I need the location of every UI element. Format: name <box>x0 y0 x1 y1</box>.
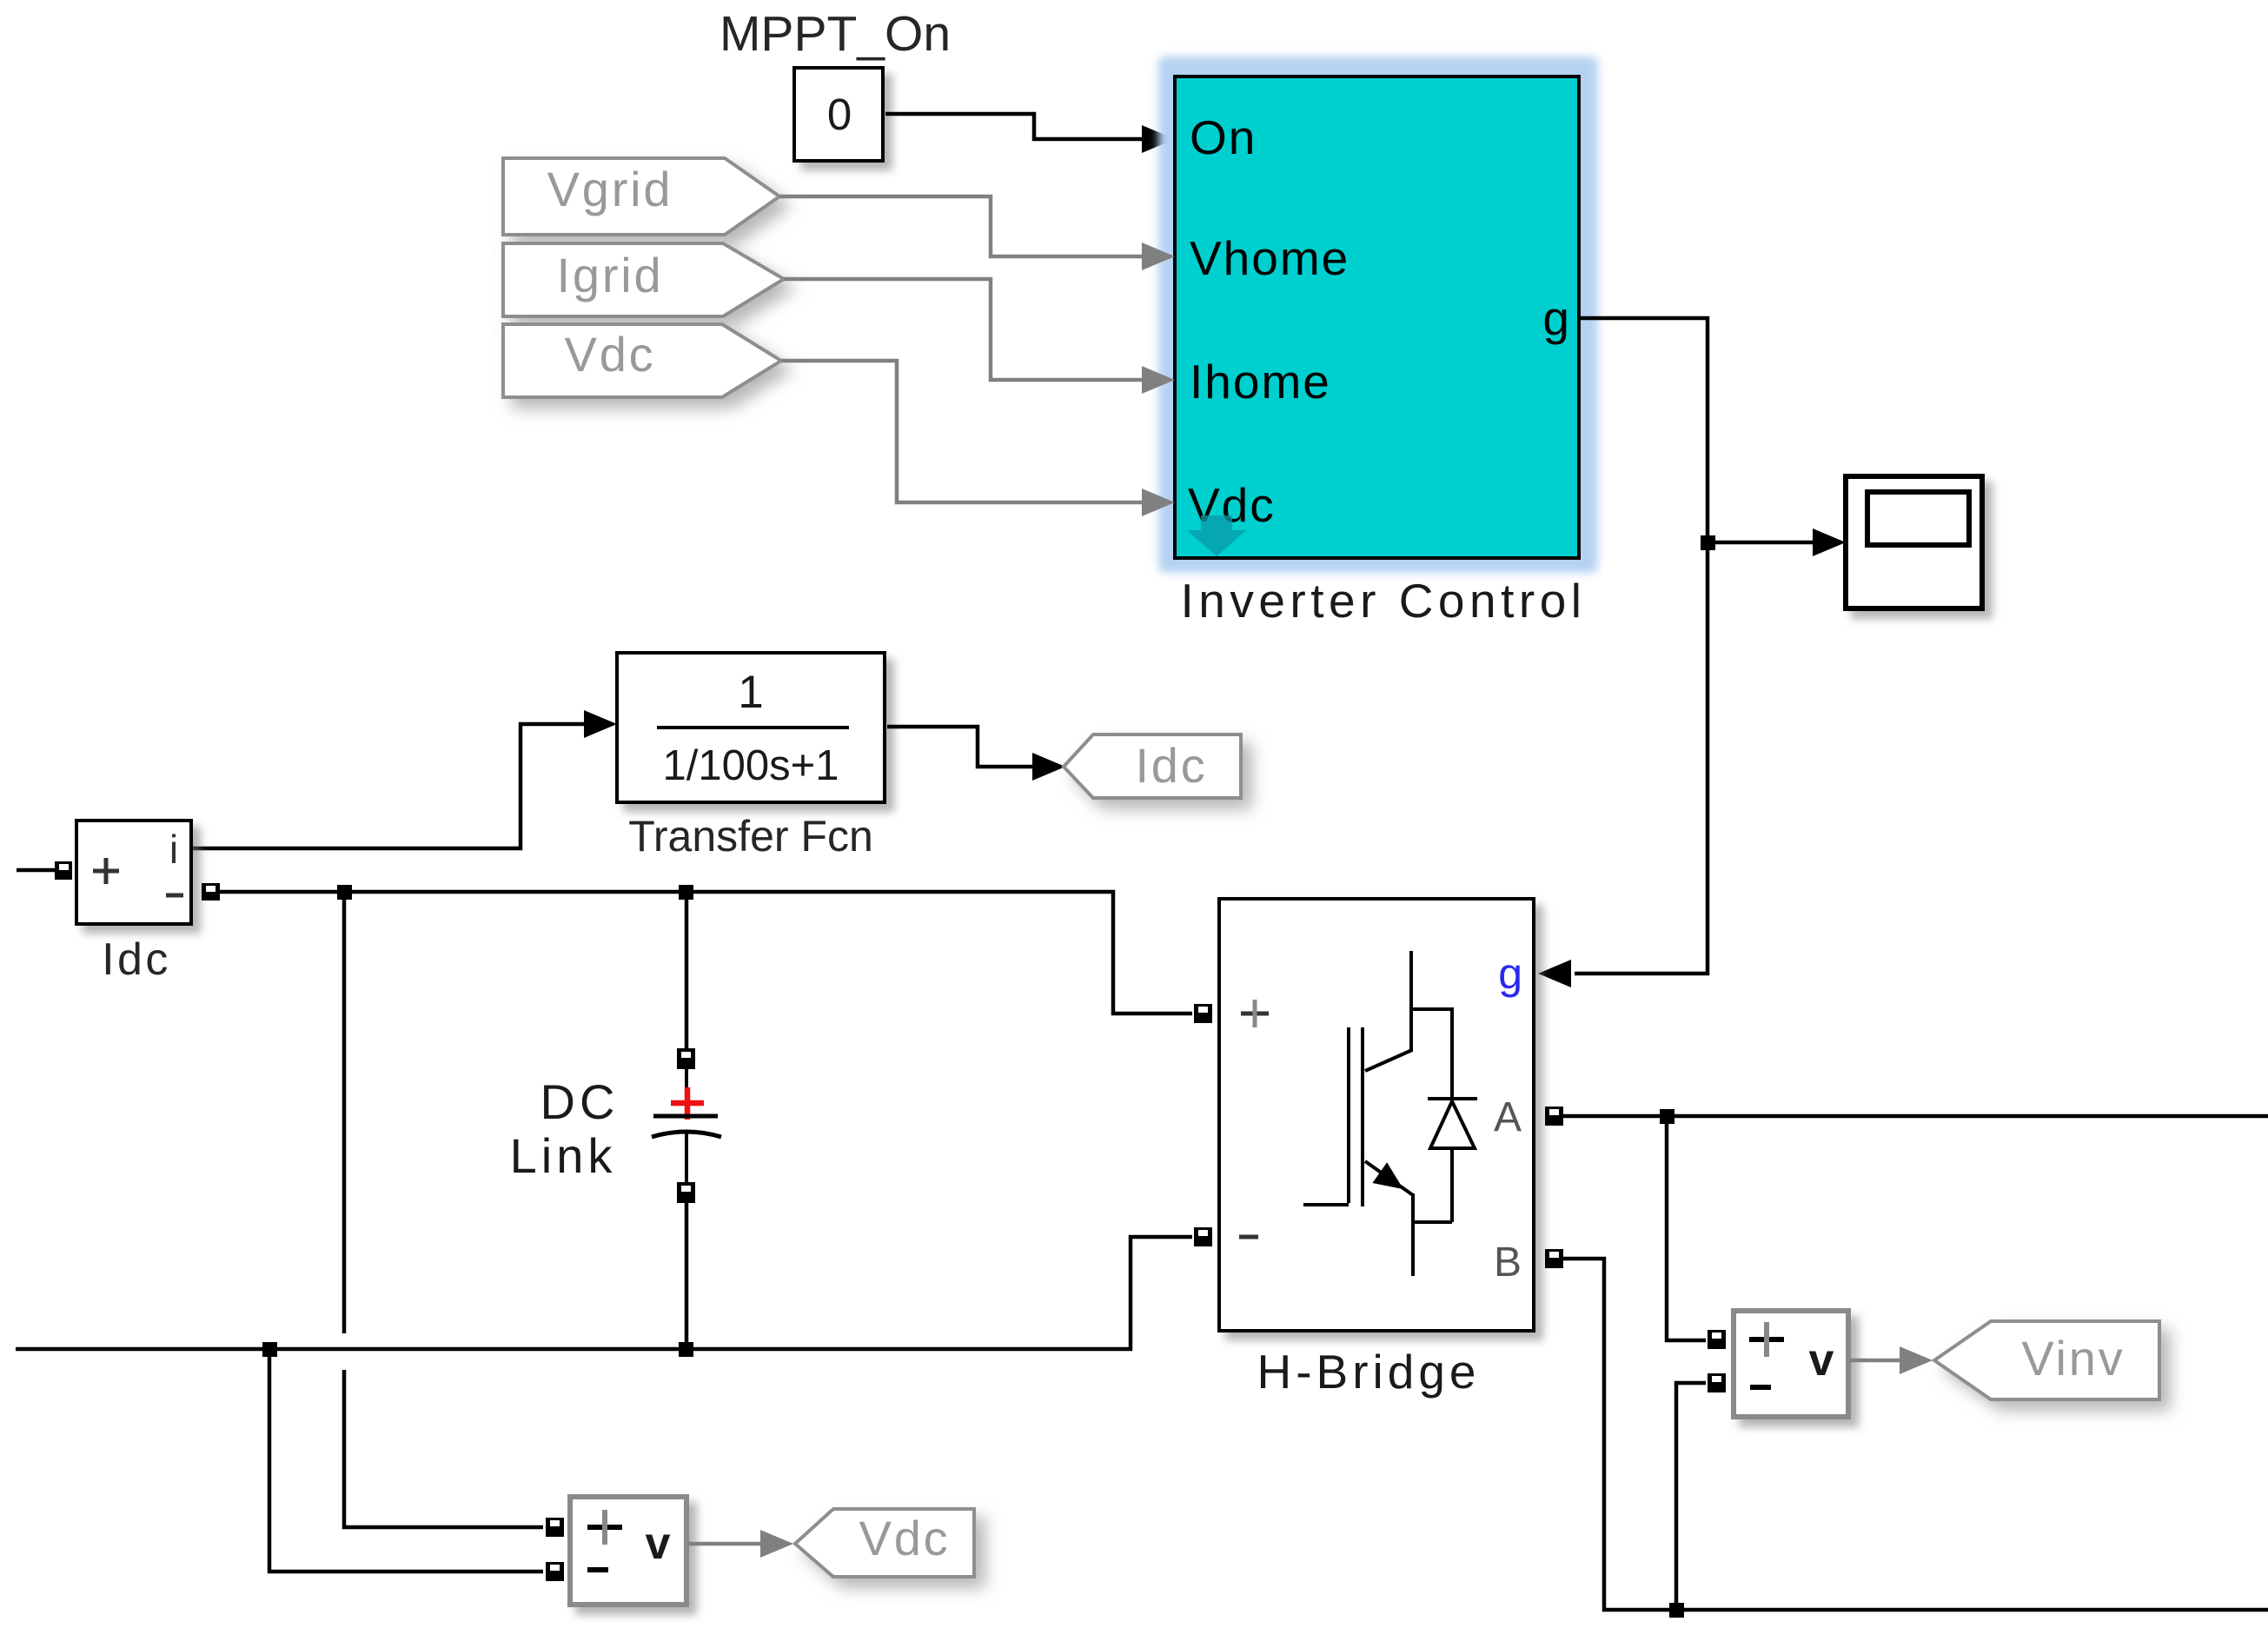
arrowhead On input port <box>1142 125 1175 153</box>
arrowhead Idc tag input <box>1032 753 1065 781</box>
port square H-Bridge B <box>1545 1249 1563 1268</box>
svg-text:Vhome: Vhome <box>1190 231 1350 285</box>
junction DC plus bus to voltage measurement <box>337 885 352 900</box>
pin label plus <box>93 869 119 874</box>
svg-text:Link: Link <box>510 1128 617 1183</box>
junction DC minus bus to DC link <box>679 1342 693 1357</box>
port square Vdc voltmeter plus <box>546 1518 564 1537</box>
gate bar right <box>1361 1027 1364 1206</box>
port square H-Bridge minus <box>1194 1227 1212 1246</box>
wire transfer fcn output to Idc tag <box>887 727 1034 767</box>
junction DC minus bus to voltage measurement <box>262 1342 277 1357</box>
subsystem H-Bridge <box>1219 899 1534 1331</box>
capacitor bottom lead <box>685 1133 688 1182</box>
svg-text:B: B <box>1494 1240 1522 1286</box>
wire Igrid to Ihome <box>784 279 1145 380</box>
diode anode lead <box>1450 1148 1454 1222</box>
wire DC minus bus <box>16 1237 1192 1349</box>
capacitor DC Link <box>652 1048 721 1203</box>
arrowhead scope input <box>1813 528 1846 556</box>
arrowhead Vdc tag input <box>760 1530 793 1558</box>
wire B to Vinv minus <box>1676 1383 1706 1610</box>
arrowhead Vinv tag input <box>1900 1346 1933 1374</box>
transfer fcn block <box>617 653 885 802</box>
constant block MPPT_On value 0 <box>794 68 883 161</box>
pin label minus <box>1750 1385 1771 1390</box>
pin label plus <box>1749 1337 1784 1342</box>
from tag Igrid <box>503 243 784 316</box>
goto tag Idc <box>1064 734 1241 798</box>
emitter diagonal <box>1365 1161 1413 1195</box>
svg-text:i: i <box>169 827 178 872</box>
svg-text:g: g <box>1542 291 1569 345</box>
wire Vinv voltmeter to Vinv tag <box>1850 1359 1903 1363</box>
svg-text:Vdc: Vdc <box>565 327 656 382</box>
svg-text:Idc: Idc <box>1135 738 1207 793</box>
svg-text:Igrid: Igrid <box>557 248 664 302</box>
svg-text:A: A <box>1494 1094 1522 1140</box>
svg-text:DC: DC <box>540 1074 620 1129</box>
junction DC plus bus to DC link <box>679 885 693 900</box>
svg-text:H-Bridge: H-Bridge <box>1257 1345 1480 1399</box>
pin label plus <box>587 1525 622 1530</box>
wire DC link top <box>685 892 689 1048</box>
diode cathode bar <box>1428 1097 1477 1100</box>
from tag Vdc <box>503 324 781 397</box>
port square DC link bottom <box>677 1182 695 1203</box>
wire Vdc voltmeter to Vdc tag <box>688 1542 763 1546</box>
svg-text:v: v <box>1809 1335 1834 1386</box>
wire constant output to On input <box>885 114 1145 139</box>
gate bar left <box>1347 1027 1350 1203</box>
wire DC plus to Vdc voltmeter plus <box>342 892 347 1333</box>
port square H-Bridge A <box>1545 1107 1563 1126</box>
wire DC link bottom <box>685 1203 689 1349</box>
polarity plus red <box>671 1087 704 1120</box>
voltage measurement block Vinv <box>1734 1311 1848 1417</box>
svg-text:Idc: Idc <box>102 934 171 985</box>
pin label minus <box>587 1567 608 1572</box>
svg-text:MPPT_On: MPPT_On <box>720 6 951 62</box>
pin label minus <box>1239 1235 1258 1240</box>
fraction line <box>657 726 849 729</box>
arrowhead Ihome input <box>1142 366 1175 394</box>
wire Idc i output to transfer fcn input <box>193 724 584 848</box>
current measurement block Idc <box>76 821 191 924</box>
svg-text:Inverter Control: Inverter Control <box>1180 574 1586 628</box>
svg-text:Ihome: Ihome <box>1190 355 1331 409</box>
goto tag Vdc <box>795 1509 974 1577</box>
collector diagonal <box>1365 1050 1412 1071</box>
pin label plus <box>1241 1012 1269 1016</box>
junction B wire to Vinv minus <box>1669 1603 1684 1618</box>
diode triangle <box>1430 1101 1475 1148</box>
svg-text:Vdc: Vdc <box>859 1511 951 1565</box>
port square H-Bridge plus <box>1194 1004 1212 1023</box>
transistor IGBT icon <box>1303 951 1477 1276</box>
wire g output to H-Bridge gate <box>1575 318 1708 974</box>
svg-text:0: 0 <box>827 90 852 139</box>
capacitor bottom plate <box>652 1132 721 1137</box>
collector to diode jog <box>1411 1009 1452 1098</box>
collector lead <box>1409 951 1413 1052</box>
arrowhead Vdc input <box>1142 489 1175 516</box>
port square DC link top <box>677 1048 695 1069</box>
subsystem drop arrow badge <box>1187 515 1246 556</box>
arrowhead H-Bridge g input <box>1538 960 1571 987</box>
port square Idc plus input <box>55 861 72 880</box>
svg-text:Vgrid: Vgrid <box>547 162 673 216</box>
goto tag Vinv <box>1934 1321 2159 1399</box>
junction A wire to Vinv plus <box>1660 1109 1674 1124</box>
arrowhead transfer fcn input <box>584 710 617 738</box>
svg-text:g: g <box>1498 949 1522 998</box>
svg-text:v: v <box>646 1519 671 1569</box>
wire junction to scope <box>1708 541 1816 545</box>
from tag Vgrid <box>503 158 779 235</box>
subsystem Inverter Control selection glow <box>1158 56 1598 573</box>
svg-text:Vinv: Vinv <box>2021 1331 2125 1386</box>
wire H-Bridge A output <box>1563 1114 2268 1119</box>
port square Vinv plus <box>1708 1330 1726 1349</box>
svg-text:1: 1 <box>738 667 763 718</box>
pin label minus <box>166 894 183 898</box>
port square Vinv minus <box>1708 1373 1726 1392</box>
subsystem Inverter Control <box>1175 76 1579 558</box>
wire H-Bridge B output <box>1563 1259 2268 1610</box>
gate lead <box>1303 1203 1349 1206</box>
arrowhead Vhome input <box>1142 243 1175 270</box>
svg-text:1/100s+1: 1/100s+1 <box>663 742 839 789</box>
port square Idc minus output <box>202 883 220 901</box>
wire DC plus bus <box>220 892 1192 1014</box>
svg-text:Transfer Fcn: Transfer Fcn <box>628 812 873 861</box>
port square Vdc voltmeter minus <box>546 1562 564 1581</box>
scope block <box>1846 476 1982 608</box>
wire stub into Idc plus <box>17 868 55 873</box>
voltage measurement block Vdc <box>570 1497 686 1605</box>
wire A to Vinv plus <box>1667 1116 1706 1340</box>
wire Vdc tag to Vdc input <box>781 361 1145 502</box>
emitter arrowhead <box>1375 1165 1401 1187</box>
junction g wire to scope <box>1701 535 1715 550</box>
capacitor top lead <box>685 1069 688 1115</box>
capacitor top plate <box>653 1114 718 1119</box>
wire Vgrid to Vhome <box>779 196 1145 256</box>
wire DC minus to Vdc voltmeter minus <box>269 1349 543 1572</box>
emitter lead <box>1413 1193 1452 1222</box>
svg-text:On: On <box>1190 110 1257 164</box>
